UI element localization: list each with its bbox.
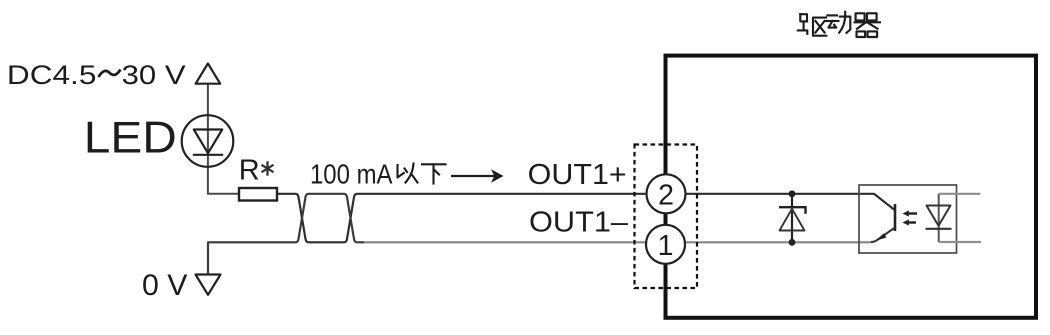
svg-text:30 V: 30 V — [122, 60, 186, 90]
svg-text:2: 2 — [658, 179, 674, 211]
svg-text:0 V: 0 V — [142, 269, 188, 302]
svg-text:100 mA: 100 mA — [310, 158, 393, 189]
svg-text:DC4.5: DC4.5 — [7, 60, 97, 90]
svg-text:OUT1–: OUT1– — [529, 206, 628, 238]
svg-text:OUT1+: OUT1+ — [528, 159, 627, 191]
svg-text:1: 1 — [658, 230, 674, 262]
svg-text:R: R — [239, 155, 260, 187]
svg-text:LED: LED — [84, 114, 177, 163]
